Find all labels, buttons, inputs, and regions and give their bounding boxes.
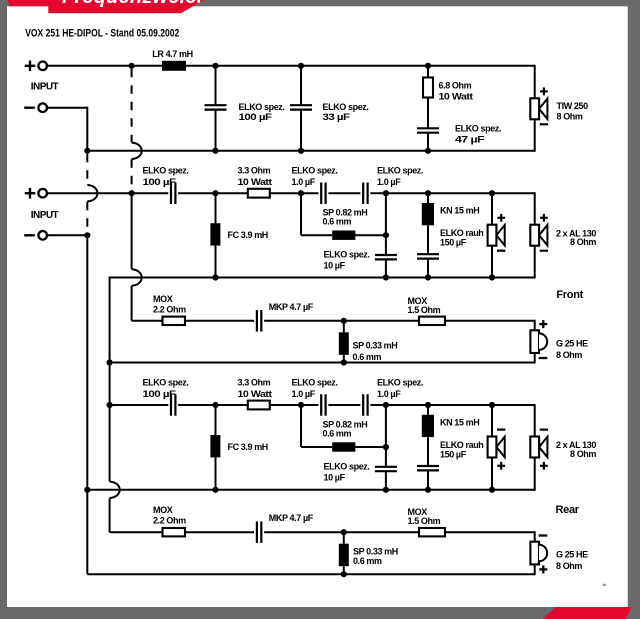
- front tweeter G 25 HE: [530, 320, 547, 358]
- bus1 down to rear mid return: [86, 235, 88, 489]
- rear speaker AL 130 second: [530, 430, 548, 470]
- svg-text:ELKO rauh: ELKO rauh: [440, 440, 483, 450]
- rear node SP branch right: [383, 444, 389, 450]
- rear mid rail bottom wire: [87, 489, 534, 491]
- resistor 6.8 Ohm 10 Watt: [423, 78, 433, 98]
- svg-text:1.0 µF: 1.0 µF: [377, 177, 401, 187]
- rear node SP branch top: [298, 402, 304, 408]
- front label 3.3 Ohm 10 Watt: [238, 166, 272, 188]
- svg-text:G 25 HE: G 25 HE: [556, 550, 588, 560]
- svg-text:ELKO spez.: ELKO spez.: [377, 378, 423, 388]
- rear label MOX 1.5 Ohm: [408, 507, 441, 526]
- front label G 25 HE 8 Ohm: [556, 338, 588, 360]
- svg-text:LR 4.7 mH: LR 4.7 mH: [152, 49, 192, 59]
- rear capacitor MKP 4.7 uF: [254, 521, 264, 543]
- rear wire speaker1 bottom: [491, 458, 493, 490]
- front resistor MOX 2.2 Ohm: [163, 317, 186, 325]
- front label ELKO spez. 10 uF: [324, 250, 370, 271]
- svg-text:10 Watt: 10 Watt: [439, 92, 473, 102]
- document title: [25, 28, 179, 40]
- front inductor KN 15 mH: [422, 193, 434, 254]
- svg-text:150 µF: 150 µF: [440, 238, 467, 248]
- rear resistor MOX 1.5 Ohm: [419, 528, 445, 536]
- wire input2- to bus1: [47, 234, 88, 236]
- rear inductor SP 0.82 mH: [332, 442, 355, 451]
- svg-text:Rear: Rear: [556, 504, 580, 516]
- svg-text:8 Ohm: 8 Ohm: [570, 237, 596, 247]
- rear label FC 3.9 mH: [228, 442, 268, 452]
- rear tweeter G 25 HE: [530, 536, 547, 574]
- dashed link bus input1+ to input2+ (upper): [131, 69, 133, 143]
- front capacitor ELKO spez. 10 uF: [375, 255, 397, 278]
- svg-text:0.6 mm: 0.6 mm: [353, 556, 382, 566]
- speaker TIW 250: [530, 88, 548, 125]
- node input2- junction: [84, 232, 90, 238]
- svg-text:ELKO spez.: ELKO spez.: [239, 102, 285, 112]
- front inductor SP 0.82 mH: [332, 231, 355, 240]
- rear node FC bottom: [212, 487, 218, 493]
- node cap 47uF bottom: [425, 148, 431, 154]
- svg-text:TIW 250: TIW 250: [557, 101, 589, 111]
- svg-text:1.0 µF: 1.0 µF: [377, 389, 401, 399]
- input 1 plus terminal: [25, 61, 47, 72]
- rear wire branch right vertical: [385, 405, 387, 467]
- front node branch right top: [383, 190, 389, 196]
- front label MOX 1.5 Ohm: [408, 296, 441, 315]
- label ELKO spez. 33 uF: [323, 102, 369, 122]
- rear node speaker1 top: [489, 402, 495, 408]
- front node SP branch right: [383, 232, 389, 238]
- svg-text:1.0 µF: 1.0 µF: [292, 389, 316, 399]
- front label 2 x AL 130 8 Ohm: [556, 228, 596, 247]
- front label ELKO spez. 1.0 uF second: [377, 166, 423, 188]
- svg-text:Front: Front: [556, 289, 583, 301]
- input 1 minus terminal: [24, 103, 47, 112]
- front resistor MOX 1.5 Ohm: [419, 317, 445, 325]
- label 6.8 Ohm 10 Watt: [439, 81, 473, 102]
- svg-text:ELKO spez.: ELKO spez.: [143, 378, 189, 388]
- front capacitor ELKO spez. 1.0 uF first: [318, 182, 328, 204]
- svg-text:0.6 mm: 0.6 mm: [323, 429, 352, 439]
- hop bus1 over rail3: [87, 185, 97, 201]
- svg-text:ELKO spez.: ELKO spez.: [324, 250, 370, 260]
- svg-text:8 Ohm: 8 Ohm: [570, 449, 596, 459]
- svg-text:10 Watt: 10 Watt: [238, 177, 272, 187]
- rear label 3.3 Ohm 10 Watt: [238, 378, 272, 400]
- rear tweeter rail bottom wire: [87, 573, 534, 575]
- front label KN 15 mH: [440, 206, 479, 216]
- rear label ELKO spez. 100 uF: [143, 378, 189, 400]
- front node SP branch top: [298, 190, 304, 196]
- node cap 33uF bottom: [298, 148, 304, 154]
- front tweeter rail top wire: [132, 320, 535, 322]
- node resistor 6.8 top: [425, 63, 431, 69]
- svg-text:MKP 4.7 µF: MKP 4.7 µF: [269, 302, 314, 312]
- front wire rail corner to speaker2: [534, 192, 536, 225]
- svg-text:ELKO spez.: ELKO spez.: [377, 166, 423, 176]
- svg-text:0.6 mm: 0.6 mm: [323, 217, 352, 227]
- rear speaker AL 130 first: [488, 430, 506, 470]
- wire rail to 6.8 Ohm: [427, 66, 429, 78]
- hop bus3 over rail2: [132, 143, 142, 159]
- front inductor FC 3.9 mH: [210, 193, 220, 277]
- svg-text:MKP 4.7 µF: MKP 4.7 µF: [269, 513, 314, 523]
- rear capacitor ELKO spez. 10 uF: [375, 467, 397, 490]
- rear label SP 0.82 mH 0.6 mm: [323, 420, 368, 439]
- node bus3 joins rail3: [129, 190, 135, 196]
- front speaker AL 130 first: [488, 214, 506, 251]
- front node SP 0.33 top: [341, 318, 347, 324]
- front node FC bottom: [212, 274, 218, 280]
- svg-text:INPUT: INPUT: [31, 82, 59, 93]
- front tweeter rail bottom wire: [110, 362, 535, 364]
- front capacitor MKP 4.7 uF: [254, 310, 264, 332]
- svg-text:33 µF: 33 µF: [323, 112, 351, 122]
- rear node FC top: [212, 402, 218, 408]
- svg-text:ELKO spez.: ELKO spez.: [324, 462, 370, 472]
- inductor LR 4.7 mH: [162, 61, 186, 71]
- rear capacitor ELKO spez. 100 uF (series): [168, 394, 178, 416]
- svg-text:VOX 251 HE-DIPOL - Stand 05.09: VOX 251 HE-DIPOL - Stand 05.09.2002: [25, 28, 179, 40]
- input 2 minus terminal: [24, 231, 47, 240]
- input 2 plus terminal: [25, 188, 47, 199]
- front speaker AL 130 second: [530, 214, 548, 251]
- svg-text:3.3 Ohm: 3.3 Ohm: [238, 378, 271, 388]
- rear label ELKO spez. 1.0 uF first: [292, 378, 338, 400]
- svg-text:ELKO spez.: ELKO spez.: [143, 166, 189, 176]
- bus1 corner to rear tweeter return: [86, 490, 88, 574]
- svg-text:ELKO spez.: ELKO spez.: [292, 378, 338, 388]
- svg-text:1.5 Ohm: 1.5 Ohm: [408, 516, 441, 526]
- rear node 150uF bottom: [425, 487, 431, 493]
- rear wire speaker1 top: [491, 405, 493, 437]
- front mid rail bottom wire: [110, 277, 535, 279]
- svg-text:SP 0.33 mH: SP 0.33 mH: [353, 547, 398, 557]
- dashed link bus input1- to input2- (lower): [86, 202, 88, 233]
- capacitor ELKO spez. 47 uF: [417, 128, 439, 151]
- rear wire corner to tweeter: [534, 531, 536, 542]
- dashed link bus input1+ to input2+ (lower): [131, 159, 133, 191]
- svg-text:MOX: MOX: [153, 505, 173, 515]
- front capacitor ELKO spez. 1.0 uF second: [360, 182, 370, 204]
- svg-text:10 µF: 10 µF: [324, 261, 346, 271]
- svg-text:KN 15 mH: KN 15 mH: [440, 206, 479, 216]
- rear wire rail corner to speaker2: [534, 404, 536, 437]
- svg-text:2.2 Ohm: 2.2 Ohm: [153, 516, 186, 526]
- rear label 2 x AL 130 8 Ohm: [556, 440, 596, 459]
- svg-text:ELKO spez.: ELKO spez.: [455, 124, 501, 134]
- front label SP 0.33 mH 0.6 mm: [353, 340, 398, 362]
- input 2 label: [31, 210, 59, 221]
- svg-text:8 Ohm: 8 Ohm: [557, 112, 583, 122]
- rear mid rail top wire: [110, 404, 535, 406]
- front node speaker1 bottom: [489, 274, 495, 280]
- input 1 label: [31, 82, 59, 93]
- dashed link bus input1- to input2- (upper): [86, 154, 88, 185]
- rear label ELKO rauh 150 uF: [440, 440, 483, 460]
- svg-text:100 µF: 100 µF: [143, 177, 177, 187]
- svg-text:10 Watt: 10 Watt: [238, 389, 272, 399]
- front label MOX 2.2 Ohm: [153, 294, 186, 315]
- svg-text:FC 3.9 mH: FC 3.9 mH: [228, 442, 268, 452]
- rear capacitor ELKO spez. 1.0 uF first: [318, 394, 328, 416]
- rear SP branch right wire: [355, 446, 386, 448]
- front wire speaker2 bottom: [534, 246, 536, 279]
- label LR 4.7 mH: [152, 49, 192, 59]
- svg-text:100 µF: 100 µF: [143, 389, 177, 399]
- svg-text:FC 3.9 mH: FC 3.9 mH: [228, 230, 268, 240]
- rear node 10uF bottom: [383, 487, 389, 493]
- node rail2 start: [84, 148, 90, 154]
- front node 10uF bottom: [383, 274, 389, 280]
- rear label ELKO spez. 1.0 uF second: [377, 378, 423, 400]
- faint blemish mark: [603, 584, 606, 586]
- rear inductor SP 0.33 mH: [339, 532, 349, 574]
- banner title text (cropped): [62, 0, 233, 8]
- front SP branch left wire: [301, 193, 332, 235]
- rear capacitor ELKO rauh 150 uF: [417, 466, 439, 490]
- wire rail1 corner down to woofer: [534, 65, 536, 99]
- rear tweeter rail top wire: [110, 531, 535, 533]
- rear SP branch left wire: [301, 405, 332, 447]
- front node FC top: [212, 190, 218, 196]
- rail2 woofer return: [87, 150, 534, 152]
- front node KN top: [425, 190, 431, 196]
- svg-text:ELKO rauh: ELKO rauh: [440, 228, 483, 238]
- rear node speaker1 bottom: [489, 487, 495, 493]
- front label MKP 4.7 uF: [269, 302, 314, 312]
- label Front: [556, 289, 583, 301]
- wire 6.8 Ohm to cap 47uF: [427, 98, 429, 129]
- front label ELKO rauh 150 uF: [440, 228, 483, 248]
- svg-text:8 Ohm: 8 Ohm: [556, 561, 582, 571]
- front label SP 0.82 mH 0.6 mm: [323, 208, 368, 227]
- node bus2 joins rear mid rail: [107, 402, 113, 408]
- front label ELKO spez. 100 uF: [143, 166, 189, 188]
- label Rear: [556, 504, 580, 516]
- rear label G 25 HE 8 Ohm: [556, 550, 588, 572]
- rear capacitor ELKO spez. 1.0 uF second: [360, 394, 370, 416]
- svg-text:2.2 Ohm: 2.2 Ohm: [153, 304, 186, 314]
- svg-text:ELKO spez.: ELKO spez.: [292, 166, 338, 176]
- rear label ELKO spez. 10 uF: [324, 462, 370, 483]
- svg-text:MOX: MOX: [153, 294, 173, 304]
- front resistor 3.3 Ohm 10 Watt: [248, 189, 270, 198]
- label ELKO spez. 100 uF (sec1): [239, 102, 285, 122]
- node cap 100uF top: [212, 63, 218, 69]
- front capacitor ELKO rauh 150 uF: [417, 254, 439, 277]
- rear wire tweeter bottom: [534, 564, 536, 575]
- svg-text:6.8 Ohm: 6.8 Ohm: [439, 81, 472, 91]
- svg-text:KN 15 mH: KN 15 mH: [440, 418, 479, 428]
- svg-text:ELKO spez.: ELKO spez.: [323, 102, 369, 112]
- front capacitor ELKO spez. 100 uF (series): [168, 182, 178, 204]
- front node speaker1 top: [489, 190, 495, 196]
- label TIW 250 8 Ohm: [557, 101, 589, 122]
- capacitor ELKO spez. 33 uF: [290, 66, 312, 151]
- front label ELKO spez. 1.0 uF first: [292, 166, 338, 188]
- rear resistor 3.3 Ohm 10 Watt: [248, 401, 270, 410]
- front SP branch right wire: [355, 234, 386, 236]
- front inductor SP 0.33 mH: [339, 321, 349, 363]
- svg-text:SP 0.33 mH: SP 0.33 mH: [353, 340, 398, 350]
- wire input1+ to LR inductor: [47, 65, 162, 67]
- front wire branch right vertical: [385, 193, 387, 255]
- svg-text:1.0 µF: 1.0 µF: [292, 177, 316, 187]
- node bus2 joins front tweeter return: [107, 359, 113, 365]
- svg-text:10 µF: 10 µF: [324, 473, 346, 483]
- bus3 solid down to tweeter rail: [132, 193, 142, 321]
- node bus1 joins rear mid return: [84, 487, 90, 493]
- svg-text:INPUT: INPUT: [31, 210, 59, 221]
- red header banner: [8, 0, 205, 13]
- rear resistor MOX 2.2 Ohm: [163, 528, 186, 536]
- wire input1- horizontal: [47, 107, 87, 109]
- svg-text:0.6 mm: 0.6 mm: [353, 352, 382, 362]
- front wire corner to tweeter: [534, 320, 536, 331]
- footer red parallelogram: [543, 607, 632, 619]
- capacitor ELKO spez. 100 uF (sec1): [205, 66, 227, 151]
- wire LR to woofer rail: [186, 65, 535, 67]
- wire woofer bottom to rail2: [534, 119, 536, 152]
- rear label SP 0.33 mH 0.6 mm: [353, 547, 398, 567]
- front node SP 0.33 bottom: [341, 359, 347, 365]
- rear node SP 0.33 top: [341, 529, 347, 535]
- rear inductor KN 15 mH: [422, 405, 434, 466]
- front wire tweeter bottom: [534, 353, 536, 364]
- rear label MKP 4.7 uF: [269, 513, 314, 523]
- svg-text:G 25 HE: G 25 HE: [556, 338, 588, 348]
- wire input1- down: [86, 107, 88, 151]
- rear label KN 15 mH: [440, 418, 479, 428]
- svg-text:100 µF: 100 µF: [239, 112, 273, 122]
- front wire speaker1 bottom: [491, 246, 493, 278]
- rear node branch right top: [383, 402, 389, 408]
- rear node SP 0.33 bottom: [341, 571, 347, 577]
- svg-text:1.5 Ohm: 1.5 Ohm: [408, 305, 441, 315]
- front label FC 3.9 mH: [228, 230, 268, 240]
- rear inductor FC 3.9 mH: [210, 405, 220, 490]
- svg-text:47 µF: 47 µF: [455, 135, 485, 145]
- svg-text:3.3 Ohm: 3.3 Ohm: [238, 166, 271, 176]
- rear label MOX 2.2 Ohm: [153, 505, 186, 526]
- svg-text:150 µF: 150 µF: [440, 450, 467, 460]
- node cap 33uF top: [298, 63, 304, 69]
- bus2 from front mid return down: [110, 277, 120, 533]
- rear wire speaker2 bottom: [534, 458, 536, 491]
- front mid rail top wire: [47, 192, 534, 194]
- node cap 100uF bottom: [212, 148, 218, 154]
- front node 150uF bottom: [425, 274, 431, 280]
- label ELKO spez. 47 uF: [455, 124, 501, 145]
- svg-text:8 Ohm: 8 Ohm: [556, 350, 582, 360]
- front wire speaker1 top: [491, 193, 493, 225]
- rear node KN top: [425, 402, 431, 408]
- node A (bus to input2+): [129, 63, 135, 69]
